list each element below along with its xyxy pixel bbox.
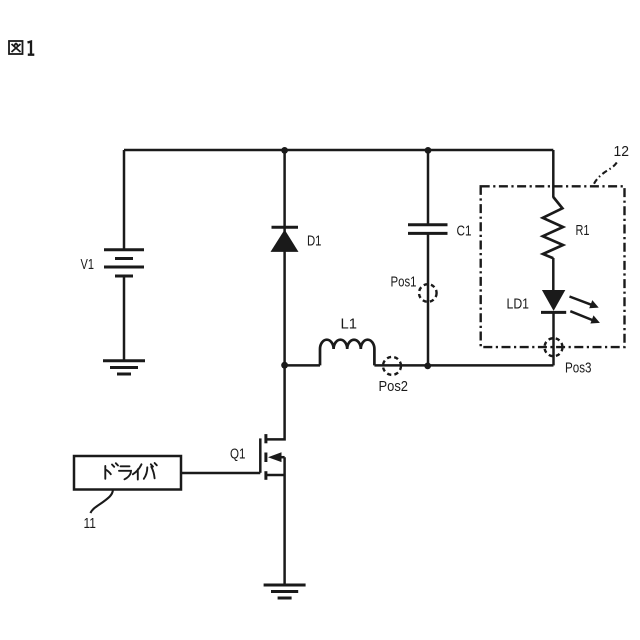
Pos3 dashed circle [545, 338, 563, 356]
イ [133, 464, 142, 479]
wire: bottom rail left segment (junction to L1) [285, 364, 320, 367]
source vertical down [283, 457, 286, 584]
svg-text:12: 12 [614, 143, 630, 160]
channel segments [264, 434, 267, 480]
resistor R1 [543, 197, 563, 258]
laser diode LD1 (pointing down, cathode bar below) [542, 290, 565, 311]
node: junction top rail / C1 branch [425, 147, 432, 154]
svg-text:Pos3: Pos3 [565, 360, 592, 377]
svg-text:LD1: LD1 [507, 296, 530, 313]
svg-text:Pos1: Pos1 [391, 274, 417, 291]
gate bar [259, 438, 262, 472]
body lead with arrow [272, 456, 285, 459]
svg-text:Q1: Q1 [230, 446, 246, 463]
svg-text:Pos2: Pos2 [379, 378, 409, 395]
wire: battery bottom lead [123, 277, 126, 360]
wire: C1 branch bottom (through Pos1) [427, 234, 430, 366]
Pos1 dashed circle [419, 284, 437, 302]
transistor Q1 (n-MOSFET) [260, 434, 284, 584]
LD1 light emission arrow 2 [570, 311, 600, 323]
wire: bottom rail right segment (L1 through Pos2 and junction to LD1 branch) [374, 364, 553, 367]
LD1 light emission arrow 1 [570, 297, 599, 309]
node: junction D1 branch / bottom rail [281, 362, 288, 369]
battery V1 [104, 250, 144, 276]
wire: C1 branch top [427, 150, 430, 224]
svg-text:R1: R1 [576, 222, 590, 239]
diode D1 (pointing up, cathode bar on top) [272, 226, 299, 229]
ラ [119, 466, 131, 479]
Pos2 dashed circle [383, 357, 401, 375]
svg-text:D1: D1 [307, 233, 322, 250]
バ [144, 463, 157, 479]
driver box 11 [74, 456, 181, 490]
wire: R1 to LD1 [552, 258, 555, 290]
ground (Q1 source) [264, 585, 306, 598]
wire: D1/Q1 branch vertical (top rail to MOSFET drain) [266, 150, 285, 439]
label ドライバ (katakana, hand drawn) [105, 463, 157, 480]
figure title 図1 [9, 41, 34, 55]
dash-dot enclosure box 12 [481, 186, 625, 347]
svg-text:C1: C1 [457, 223, 472, 240]
svg-text:11: 11 [84, 515, 97, 532]
svg-text:V1: V1 [81, 256, 95, 273]
ground (battery) [103, 361, 145, 374]
wire: right branch vertical down to R1 [552, 150, 555, 198]
capacitor C1 [408, 225, 448, 234]
node: junction C1 branch / bottom rail [424, 363, 431, 370]
wire: battery top lead [123, 150, 126, 249]
ド [105, 463, 118, 479]
wire: LD1 cathode down through Pos3 to bottom rail [552, 313, 555, 366]
inductor L1 [320, 340, 374, 366]
leader line for 11 [90, 490, 113, 513]
wire: top rail from battery to right branch [124, 149, 553, 152]
node: junction top rail / D1 branch [281, 147, 288, 154]
wire: gate lead from driver [181, 472, 260, 475]
leader line for 12 [593, 163, 617, 187]
source lead [266, 474, 285, 477]
svg-text:L1: L1 [341, 316, 358, 333]
